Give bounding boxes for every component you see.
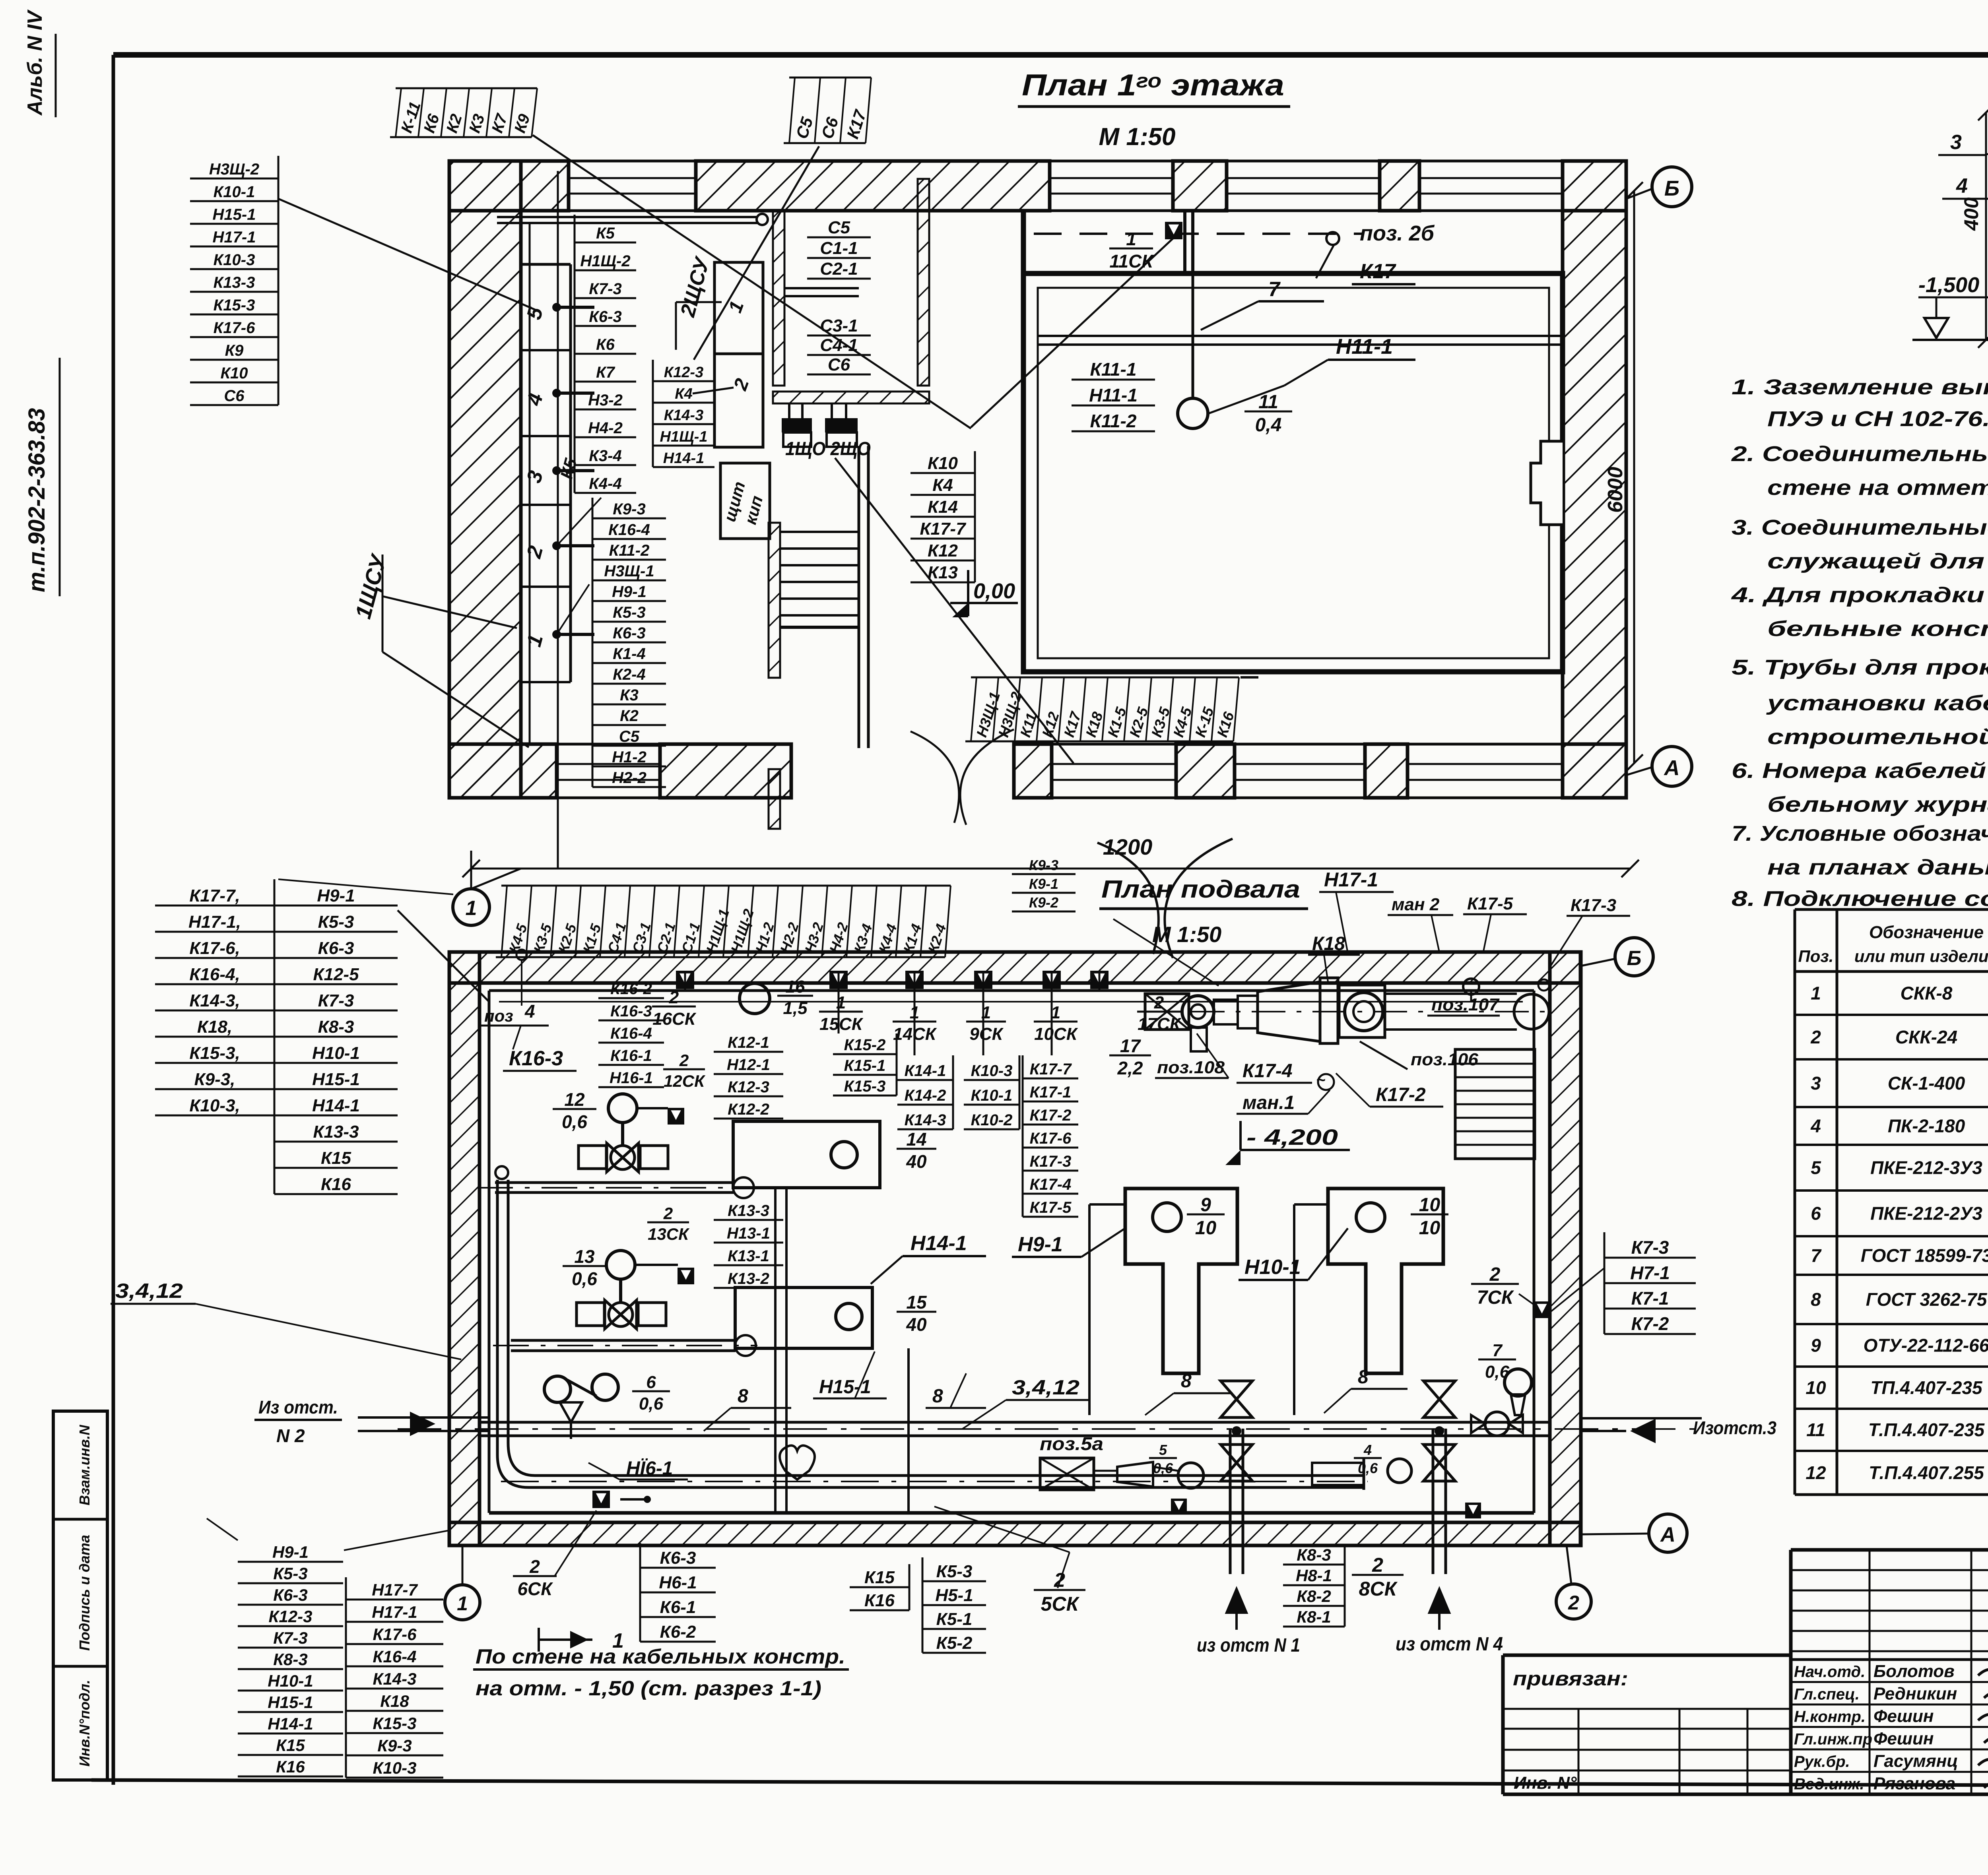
label 17/2.2 poz108 [1109, 1033, 1229, 1078]
connection box 10SK [1043, 971, 1061, 989]
level mark 0.00 [950, 570, 1018, 617]
svg-text:К14-3: К14-3 [905, 1111, 946, 1129]
svg-text:или тип изделия: или тип изделия [1854, 947, 1988, 966]
svg-text:Фешин: Фешин [1873, 1729, 1934, 1749]
svg-text:С3-1: С3-1 [820, 316, 858, 335]
svg-text:Из отст.: Из отст. [258, 1397, 338, 1417]
svg-text:12СК: 12СК [664, 1072, 706, 1090]
svg-text:К17-6: К17-6 [373, 1625, 417, 1644]
arrow from otst N4 [1396, 1586, 1503, 1655]
svg-text:К17-6: К17-6 [1030, 1130, 1072, 1147]
svg-text:К10-3,: К10-3, [189, 1096, 240, 1115]
svg-text:К5-1: К5-1 [936, 1609, 973, 1629]
svg-text:0,6: 0,6 [1153, 1460, 1173, 1476]
svg-text:К3: К3 [620, 686, 639, 704]
section dim 400 [1960, 105, 1988, 348]
svg-text:Н14-1: Н14-1 [911, 1232, 967, 1255]
label 1/14SK [893, 1003, 937, 1044]
svg-text:К17-3: К17-3 [1030, 1153, 1072, 1170]
leaders to basement wall [398, 910, 489, 1002]
svg-text:Т.П.4.407-235: Т.П.4.407-235 [1868, 1419, 1985, 1440]
svg-text:К17-1: К17-1 [1030, 1084, 1072, 1101]
label N14-1 [871, 1232, 986, 1284]
svg-text:11: 11 [1806, 1419, 1825, 1440]
svg-text:К9: К9 [225, 342, 244, 359]
svg-text:8: 8 [1358, 1367, 1369, 1388]
tank drop lines [1089, 1204, 1328, 1415]
svg-text:К13-3: К13-3 [214, 274, 255, 291]
svg-text:Н.контр.: Н.контр. [1794, 1708, 1866, 1726]
svg-text:17: 17 [1120, 1035, 1142, 1056]
label K16-3 [503, 1047, 577, 1071]
svg-text:10СК: 10СК [1034, 1024, 1078, 1044]
S5 room right partition [918, 179, 929, 386]
svg-text:поз.107: поз.107 [1431, 995, 1500, 1014]
svg-text:1: 1 [466, 897, 477, 920]
reducer cluster [1117, 1442, 1481, 1518]
svg-text:5СК: 5СК [1041, 1593, 1080, 1615]
svg-text:К6-3: К6-3 [318, 938, 354, 958]
label K17-2 [1336, 1073, 1443, 1107]
svg-text:Н8-1: Н8-1 [1296, 1566, 1332, 1585]
axis circle A upper [1626, 747, 1692, 786]
svg-text:К6-2: К6-2 [660, 1622, 696, 1642]
svg-text:Изотст.3: Изотст.3 [1693, 1417, 1776, 1438]
svg-text:К10-3: К10-3 [214, 251, 255, 269]
svg-text:СКК-24: СКК-24 [1895, 1027, 1957, 1047]
svg-text:К5-3: К5-3 [318, 912, 354, 932]
svg-text:Н3-2: Н3-2 [588, 392, 623, 409]
svg-text:К13-2: К13-2 [728, 1270, 769, 1287]
label stack K12 group [714, 1034, 783, 1119]
svg-text:9: 9 [1200, 1194, 1211, 1216]
svg-text:поз: поз [484, 1006, 513, 1025]
svg-text:4. Для прокладки кабелей по ст: 4. Для прокладки кабелей по стенам здани… [1731, 583, 1988, 607]
svg-text:К13-1: К13-1 [728, 1247, 769, 1265]
svg-text:К3-4: К3-4 [589, 447, 621, 465]
svg-text:2: 2 [679, 1051, 689, 1070]
K9-3/K9-1/K9-2 leader [1118, 885, 1141, 886]
box 6SK [513, 1491, 651, 1599]
S5 room left partition [773, 210, 784, 386]
components table [1795, 909, 1988, 1495]
svg-text:К12-1: К12-1 [728, 1034, 769, 1051]
svg-text:Н10-1: Н10-1 [1244, 1256, 1301, 1279]
label 10/10 [1411, 1194, 1448, 1239]
label stack K15 sub [833, 1033, 897, 1096]
svg-text:К17-3: К17-3 [1571, 896, 1616, 915]
label 14/40 [897, 1129, 936, 1172]
svg-text:К16: К16 [321, 1175, 351, 1194]
cable line along top of hall [1034, 234, 1563, 345]
svg-text:К9-3: К9-3 [377, 1736, 412, 1755]
break mark small [911, 729, 1014, 825]
svg-text:К12-2: К12-2 [728, 1101, 769, 1118]
svg-text:К12-3: К12-3 [269, 1607, 313, 1626]
arrow from otst N1 [1197, 1586, 1300, 1656]
dim 6000 [1604, 182, 1643, 772]
svg-text:7: 7 [1811, 1245, 1822, 1266]
svg-text:К8-3: К8-3 [273, 1650, 308, 1669]
svg-text:7. Условные обозначения электр: 7. Условные обозначения электрического о… [1732, 822, 1988, 845]
svg-text:0,6: 0,6 [639, 1394, 664, 1414]
label poz107 [1427, 995, 1500, 1016]
pump 15 [735, 1287, 936, 1348]
underline of row [1241, 676, 1258, 679]
svg-text:СКК-8: СКК-8 [1901, 983, 1953, 1004]
svg-text:ман 2: ман 2 [1392, 895, 1440, 914]
svg-text:Н12-1: Н12-1 [727, 1056, 770, 1074]
svg-text:6СК: 6СК [517, 1578, 553, 1599]
S5 room shelf lines [784, 288, 859, 296]
svg-text:-1,500: -1,500 [1918, 273, 1979, 297]
label stack K12-3 group [653, 360, 714, 467]
svg-text:3,4,12: 3,4,12 [1012, 1376, 1079, 1399]
leader row to K9 stack [1097, 919, 1161, 990]
axis circle B upper [1626, 167, 1692, 207]
svg-text:ПК-2-180: ПК-2-180 [1888, 1116, 1965, 1136]
svg-text:привязан:: привязан: [1513, 1668, 1628, 1690]
svg-text:К16-4: К16-4 [610, 1025, 652, 1042]
label N9-1 basement [1012, 1228, 1125, 1257]
vertical pipe left with bend [495, 1166, 535, 1487]
svg-text:К16-3: К16-3 [509, 1047, 563, 1070]
svg-text:К8-2: К8-2 [1297, 1587, 1331, 1605]
basement: bottom wall [449, 1522, 1580, 1545]
svg-text:А: А [1660, 1523, 1675, 1546]
svg-text:6: 6 [1811, 1203, 1821, 1224]
svg-text:К16-4: К16-4 [373, 1647, 417, 1666]
label 9/10 [1187, 1194, 1225, 1239]
circle symbol 16 [740, 983, 770, 1014]
label 5/0.6 [1149, 1442, 1177, 1476]
svg-text:4: 4 [1363, 1442, 1372, 1458]
label stack K10 sub [964, 1055, 1019, 1129]
axis circle B basement [1581, 938, 1653, 976]
svg-text:К15-3,: К15-3, [189, 1043, 240, 1063]
label stack S3-1 group [807, 316, 871, 374]
svg-text:К15-2: К15-2 [844, 1036, 886, 1054]
svg-text:Редникин: Редникин [1873, 1684, 1957, 1704]
svg-text:К12-3: К12-3 [664, 364, 703, 381]
svg-text:15: 15 [906, 1292, 927, 1313]
svg-text:К16-2: К16-2 [610, 980, 652, 998]
svg-text:Н17-7: Н17-7 [372, 1580, 418, 1599]
svg-text:2: 2 [1372, 1554, 1383, 1576]
svg-text:7СК: 7СК [1477, 1287, 1514, 1308]
svg-text:К14-3: К14-3 [373, 1669, 417, 1688]
margin note t.p.902-2-363.83 [24, 358, 60, 596]
leader from K-11 row [533, 135, 971, 429]
valve 7/0.6 [1478, 1341, 1532, 1415]
svg-text:К5-3: К5-3 [613, 604, 645, 621]
svg-text:16: 16 [786, 977, 805, 997]
pipes horizontal upper [477, 1177, 755, 1198]
svg-text:К8-3: К8-3 [318, 1017, 354, 1037]
panel 1SchO [782, 403, 812, 447]
label stack K6 bottom group [640, 1543, 716, 1642]
small circles on wall [1463, 979, 1549, 1002]
hall niche [1531, 441, 1563, 525]
note po stene [473, 1645, 849, 1700]
svg-text:Н7-1: Н7-1 [1630, 1262, 1670, 1283]
svg-text:К7-1: К7-1 [1631, 1288, 1669, 1309]
svg-text:Гл.инж.пр: Гл.инж.пр [1794, 1731, 1872, 1748]
label 1/10SK [1034, 1003, 1078, 1044]
label N6-1 [588, 1458, 688, 1479]
stamp column bottom left [53, 1411, 107, 1780]
axis circle 2 bottom [1556, 1545, 1591, 1619]
svg-text:К15: К15 [321, 1148, 351, 1168]
svg-text:0,6: 0,6 [572, 1268, 597, 1289]
svg-text:1. Заземление выполнить нулево: 1. Заземление выполнить нулевой жилой ка… [1732, 375, 1988, 399]
svg-text:СК-1-400: СК-1-400 [1888, 1073, 1965, 1094]
svg-text:ТП.4.407-235: ТП.4.407-235 [1870, 1377, 1983, 1398]
svg-text:План подвала: План подвала [1101, 876, 1300, 903]
svg-text:8: 8 [932, 1386, 943, 1407]
svg-text:К8-3: К8-3 [1297, 1545, 1331, 1564]
label 2/7SK [1471, 1264, 1550, 1318]
svg-text:4: 4 [524, 1001, 535, 1022]
label stack K13 group [714, 1202, 783, 1288]
svg-text:К18,: К18, [197, 1017, 232, 1037]
svg-text:10: 10 [1806, 1377, 1826, 1398]
svg-text:Н9-1: Н9-1 [272, 1543, 309, 1561]
svg-text:2: 2 [1810, 1027, 1821, 1047]
svg-text:К6-3: К6-3 [613, 624, 645, 642]
svg-text:из отст N 4: из отст N 4 [1396, 1634, 1503, 1655]
svg-text:установки кабельных конструкци: установки кабельных конструкций даны в ч… [1766, 691, 1988, 715]
title block [1791, 1550, 1988, 1794]
svg-text:ПКЕ-212-2У3: ПКЕ-212-2У3 [1870, 1203, 1982, 1224]
connection box 17SK [1090, 971, 1109, 989]
tank 9 [1125, 1189, 1237, 1373]
basement: left wall [449, 952, 480, 1545]
svg-text:3,4,12: 3,4,12 [115, 1280, 183, 1303]
svg-text:К9-3: К9-3 [1029, 857, 1058, 873]
svg-text:5. Трубы для прокладки кабелей: 5. Трубы для прокладки кабелей и закладн… [1732, 655, 1988, 679]
leader K7 group [1551, 1268, 1604, 1312]
svg-text:А: А [1664, 756, 1680, 780]
connection box 13SK [678, 1268, 694, 1284]
svg-text:К17-2: К17-2 [1376, 1084, 1426, 1105]
svg-text:К9-3: К9-3 [613, 500, 645, 518]
break mark right [1097, 839, 1233, 958]
leader 5SK to box [1058, 1552, 1070, 1588]
label stack K14 sub [897, 1055, 953, 1129]
notes text block [1731, 375, 1988, 911]
svg-text:10: 10 [1195, 1218, 1217, 1239]
label stack basement outside left colB [274, 879, 398, 1194]
svg-text:С6: С6 [828, 355, 850, 374]
label stack S5 group [807, 218, 871, 279]
svg-text:12: 12 [1806, 1462, 1826, 1483]
svg-text:Н16-1: Н16-1 [610, 1069, 653, 1087]
svg-text:2: 2 [1489, 1264, 1501, 1285]
svg-text:К4-4: К4-4 [589, 475, 621, 493]
leader from S5 row [694, 146, 819, 360]
leader 7 [1201, 278, 1324, 330]
svg-text:С5: С5 [828, 218, 850, 237]
svg-text:Вед.инж.: Вед.инж. [1794, 1776, 1864, 1793]
svg-text:Н10-1: Н10-1 [312, 1043, 360, 1063]
svg-text:13: 13 [574, 1246, 595, 1267]
label stack K9-3 group [592, 498, 666, 787]
svg-text:К6-3: К6-3 [273, 1586, 308, 1604]
svg-text:поз. 2б: поз. 2б [1360, 221, 1435, 245]
svg-text:Гасумянц: Гасумянц [1873, 1751, 1958, 1771]
svg-text:К5-2: К5-2 [936, 1633, 973, 1653]
label 7/0.6 [1478, 1341, 1516, 1382]
main sludge pipe [398, 1422, 1702, 1436]
lamp 11 circuit [1178, 235, 1208, 429]
svg-text:Н14-1: Н14-1 [312, 1096, 360, 1115]
svg-text:6000: 6000 [1604, 467, 1627, 513]
section leader 4 [1942, 175, 1988, 199]
label 2/8SK bottom [1352, 1554, 1404, 1600]
svg-text:Обозначение: Обозначение [1869, 923, 1984, 942]
privyazan block [1503, 1655, 1791, 1794]
label K17 upper [1352, 260, 1415, 284]
svg-text:К10-1: К10-1 [971, 1087, 1013, 1104]
svg-text:К14-1: К14-1 [905, 1062, 946, 1080]
label row wall cables bottom [965, 677, 1239, 741]
svg-text:Нач.отд.: Нач.отд. [1794, 1663, 1865, 1681]
label stack K10 group [911, 451, 975, 582]
svg-text:К16-4,: К16-4, [189, 965, 240, 984]
svg-text:Н4-2: Н4-2 [588, 419, 623, 437]
svg-text:С4-1: С4-1 [820, 335, 858, 355]
svg-text:стене на отметке - 2.00м.: стене на отметке - 2.00м. [1767, 476, 1988, 500]
svg-text:5: 5 [1159, 1442, 1167, 1458]
label 6/0.6 [632, 1373, 670, 1414]
svg-text:К7-2: К7-2 [1631, 1313, 1669, 1334]
label poz 2b [1316, 221, 1435, 278]
svg-text:7: 7 [1268, 278, 1281, 301]
svg-text:К10: К10 [928, 454, 958, 473]
svg-text:Н1Щ-2: Н1Щ-2 [580, 252, 630, 270]
svg-text:К16-3: К16-3 [610, 1002, 652, 1020]
connection box 12SK [668, 1108, 684, 1125]
svg-text:К15-3: К15-3 [373, 1714, 417, 1733]
axis circle 1 mid [453, 889, 489, 925]
svg-text:К16-4: К16-4 [608, 521, 650, 539]
svg-text:7: 7 [1492, 1341, 1503, 1360]
svg-text:8СК: 8СК [1359, 1578, 1398, 1600]
svg-text:на отм. - 1,50 (ст. разрез 1-1: на отм. - 1,50 (ст. разрез 1-1) [476, 1677, 821, 1700]
label row K-11 row [390, 88, 537, 137]
svg-text:0,4: 0,4 [1255, 415, 1282, 436]
svg-text:К15: К15 [864, 1568, 895, 1587]
label stack K5 group [575, 215, 636, 493]
ball valve right [1471, 1412, 1523, 1436]
labels 8 and 3,4,12 [704, 1386, 791, 1431]
svg-text:К17-5: К17-5 [1030, 1199, 1072, 1216]
tank 10 [1328, 1189, 1443, 1373]
label row cable row above basement [496, 886, 951, 957]
svg-text:К12: К12 [928, 541, 958, 560]
svg-text:К4: К4 [932, 475, 953, 495]
svg-text:ман.1: ман.1 [1242, 1092, 1295, 1113]
svg-text:Н6-1: Н6-1 [659, 1573, 697, 1592]
svg-text:К17-5: К17-5 [1467, 894, 1513, 913]
svg-text:6. Номера кабелей соответствую: 6. Номера кабелей соответствуют номерам … [1732, 759, 1988, 783]
label stack basement outside left colA [155, 886, 274, 1115]
svg-text:Рук.бр.: Рук.бр. [1794, 1753, 1850, 1770]
svg-text:Болотов: Болотов [1873, 1662, 1955, 1681]
svg-text:Инв.N°подл.: Инв.N°подл. [76, 1680, 93, 1766]
svg-text:К17-7,: К17-7, [189, 886, 240, 906]
machine hall outline [1023, 211, 1563, 672]
svg-text:Н14-1: Н14-1 [268, 1714, 313, 1733]
svg-text:14: 14 [906, 1129, 926, 1150]
svg-text:4: 4 [1810, 1116, 1821, 1136]
valve assembly 13 [563, 1246, 694, 1329]
svg-text:из отст N 1: из отст N 1 [1197, 1635, 1300, 1656]
svg-text:ГОСТ 18599-73: ГОСТ 18599-73 [1861, 1245, 1988, 1266]
S5 room bottom wall [773, 392, 929, 403]
svg-text:1: 1 [1811, 983, 1821, 1004]
svg-text:К14-2: К14-2 [905, 1087, 946, 1104]
svg-text:Альб. N IV: Альб. N IV [23, 9, 47, 116]
svg-text:К12-3: К12-3 [728, 1078, 769, 1096]
label 15/40 [897, 1292, 936, 1335]
check valve heart [780, 1446, 815, 1479]
svg-text:К14-3: К14-3 [664, 407, 703, 424]
label 4/0.6 [1354, 1442, 1382, 1476]
label [563, 1246, 606, 1289]
panel 2SchO [825, 403, 858, 447]
svg-text:2: 2 [663, 1204, 673, 1223]
svg-text:8: 8 [738, 1386, 748, 1407]
svg-text:16СК: 16СК [652, 1009, 697, 1029]
svg-text:К15: К15 [276, 1736, 305, 1755]
svg-text:Подпись и дата: Подпись и дата [76, 1535, 93, 1651]
svg-text:М 1:50: М 1:50 [1152, 922, 1221, 947]
svg-text:К17-4: К17-4 [1242, 1061, 1293, 1082]
svg-text:10: 10 [1419, 1194, 1441, 1216]
svg-text:6: 6 [646, 1373, 656, 1392]
pump 14 [733, 1121, 936, 1188]
label 2/6SK [513, 1556, 557, 1599]
svg-text:К16: К16 [276, 1757, 305, 1776]
long bottom pipe [501, 1476, 1368, 1487]
svg-text:Н14-1: Н14-1 [663, 450, 705, 467]
svg-text:Н17-1: Н17-1 [1324, 869, 1378, 891]
svg-text:2: 2 [669, 988, 679, 1007]
label N11-1 [1209, 335, 1415, 413]
svg-text:С2-1: С2-1 [820, 259, 858, 279]
basement leaders misc [914, 890, 986, 978]
level mark -4.200 [1225, 1121, 1350, 1165]
axis line through plan [557, 171, 559, 869]
svg-text:К2: К2 [620, 707, 639, 725]
svg-text:Рязанова: Рязанова [1873, 1774, 1955, 1794]
svg-text:Инв. N°: Инв. N° [1514, 1773, 1577, 1793]
leader stack to cell5 [278, 199, 536, 310]
upper plan: left wall [449, 161, 521, 798]
svg-text:С5: С5 [619, 728, 640, 745]
svg-text:К7-3: К7-3 [318, 991, 354, 1010]
svg-text:К2-4: К2-4 [613, 666, 645, 683]
svg-text:К6: К6 [596, 336, 615, 353]
svg-text:3: 3 [1811, 1073, 1821, 1094]
svg-text:К17-6: К17-6 [214, 319, 255, 337]
svg-text:бельному журналу черт. NN ЭМ-: бельному журналу черт. NN ЭМ-29, ЭМ-30. [1767, 793, 1988, 816]
svg-text:10: 10 [1419, 1218, 1441, 1239]
leader 2/6SK line [895, 1550, 911, 1574]
valve assembly 12 [553, 1089, 684, 1172]
